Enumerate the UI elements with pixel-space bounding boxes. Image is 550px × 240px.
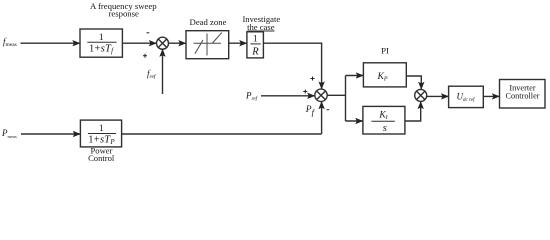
- svg-text:Controller: Controller: [505, 92, 539, 101]
- svg-text:Pref: Pref: [245, 90, 259, 102]
- svg-text:s: s: [383, 123, 387, 134]
- svg-text:1: 1: [99, 33, 104, 43]
- svg-text:fref: fref: [147, 68, 157, 80]
- svg-text:Pf: Pf: [305, 105, 316, 117]
- svg-text:1: 1: [253, 34, 258, 44]
- svg-text:KP: KP: [376, 72, 387, 83]
- svg-text:Dead zone: Dead zone: [190, 17, 227, 27]
- svg-text:Udc ref: Udc ref: [457, 91, 475, 103]
- svg-text:1: 1: [99, 124, 104, 134]
- svg-text:R: R: [251, 47, 259, 58]
- svg-text:Pmeas: Pmeas: [1, 128, 17, 139]
- svg-text:response: response: [108, 9, 139, 19]
- svg-text:PI: PI: [381, 46, 389, 56]
- svg-text:fmeas: fmeas: [3, 36, 17, 48]
- svg-text:1+sTf: 1+sTf: [89, 43, 114, 55]
- svg-text:1+sTP: 1+sTP: [88, 134, 115, 146]
- svg-text:Control: Control: [88, 153, 115, 163]
- svg-text:the case: the case: [247, 22, 275, 32]
- svg-text:KI: KI: [378, 110, 388, 121]
